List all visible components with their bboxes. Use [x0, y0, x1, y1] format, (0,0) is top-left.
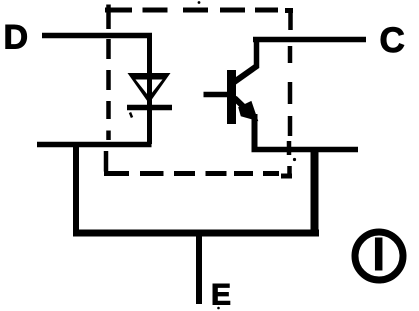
wire C collector lead [253, 37, 366, 43]
transistor Q1 emitter arrow [240, 103, 256, 119]
package outline bottom dashed [104, 174, 292, 177]
LED D1 triangle [128, 73, 171, 118]
logo circled-1 bar [375, 238, 383, 271]
wire emitter E lead [196, 231, 202, 304]
LED D1 cathode bar [127, 105, 172, 111]
wire collector vertical [254, 38, 260, 69]
transistor Q1 emitter diagonal [235, 98, 251, 113]
wire emitter vertical [252, 114, 258, 152]
wire left rail drop [73, 142, 79, 233]
transistor Q1 base lead [204, 92, 230, 98]
wire right rail [252, 147, 359, 153]
package outline top dashed [105, 8, 293, 14]
package outline left dashed [106, 5, 109, 172]
svg-text:D: D [4, 19, 29, 57]
package outline right dashed [289, 8, 291, 176]
svg-text:E: E [211, 279, 231, 311]
wire left rail [37, 142, 152, 148]
svg-text:C: C [380, 21, 405, 60]
wire D anode lead [42, 33, 152, 39]
wire right rail drop [311, 148, 319, 233]
wire anode vertical [147, 33, 152, 144]
wire bottom rail [73, 230, 319, 237]
transistor Q1 base bar [227, 70, 236, 124]
logo circled-1 circle [355, 232, 403, 280]
transistor Q1 collector diagonal [234, 66, 258, 83]
